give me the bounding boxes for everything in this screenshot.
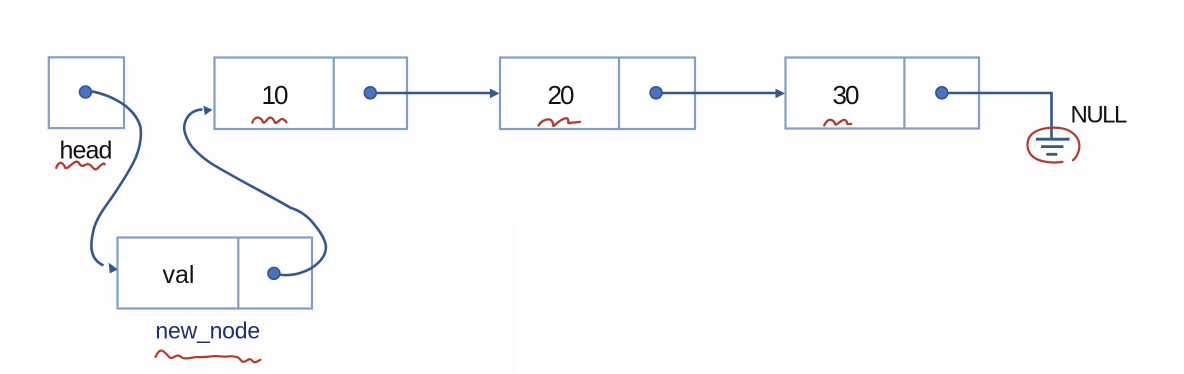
svg-text:10: 10	[262, 80, 288, 110]
node 30 box	[786, 58, 980, 129]
svg-text:val: val	[163, 261, 195, 289]
svg-text:head: head	[59, 137, 111, 165]
node 10 next dot	[364, 87, 376, 99]
new_node box	[118, 238, 313, 309]
arrowhead into node 20	[490, 89, 500, 99]
red squiggle under 20	[539, 118, 581, 126]
ground symbol bar 3	[1046, 153, 1057, 156]
node 10 box	[215, 58, 408, 130]
head pointer dot	[80, 86, 92, 98]
red squiggle under 30	[824, 120, 851, 126]
wire node20 -> node30	[662, 92, 776, 95]
red squiggle under head	[56, 162, 104, 170]
svg-text:NULL: NULL	[1071, 102, 1128, 129]
red hand-drawn circle around ground	[1027, 128, 1079, 163]
new_node divider	[237, 238, 239, 309]
node 30 next dot	[936, 87, 948, 99]
head pointer box	[49, 57, 124, 128]
svg-text:30: 30	[833, 80, 859, 110]
svg-text:new_node: new_node	[155, 317, 260, 343]
arrowhead into node 30	[776, 89, 786, 99]
wire node30 -> ground (right then down)	[948, 93, 1052, 138]
node 10 divider	[333, 58, 335, 130]
node 20 divider	[618, 58, 620, 130]
ground symbol bar 1	[1036, 138, 1070, 141]
red squiggle under new_node	[156, 351, 261, 363]
arrowhead into node 10	[203, 106, 212, 115]
wire node10 -> node20	[376, 92, 491, 95]
curved arrow head -> new_node	[91, 91, 141, 265]
ground symbol bar 2	[1041, 145, 1063, 148]
node 20 next dot	[650, 87, 662, 99]
new_node next dot	[268, 267, 280, 279]
red squiggle under 10	[252, 117, 286, 122]
arrowhead into new_node box	[109, 263, 118, 274]
svg-text:20: 20	[548, 80, 574, 110]
node 20 box	[500, 58, 695, 130]
curved arrow new_node -> node 10	[184, 109, 326, 275]
node 30 divider	[903, 58, 905, 129]
